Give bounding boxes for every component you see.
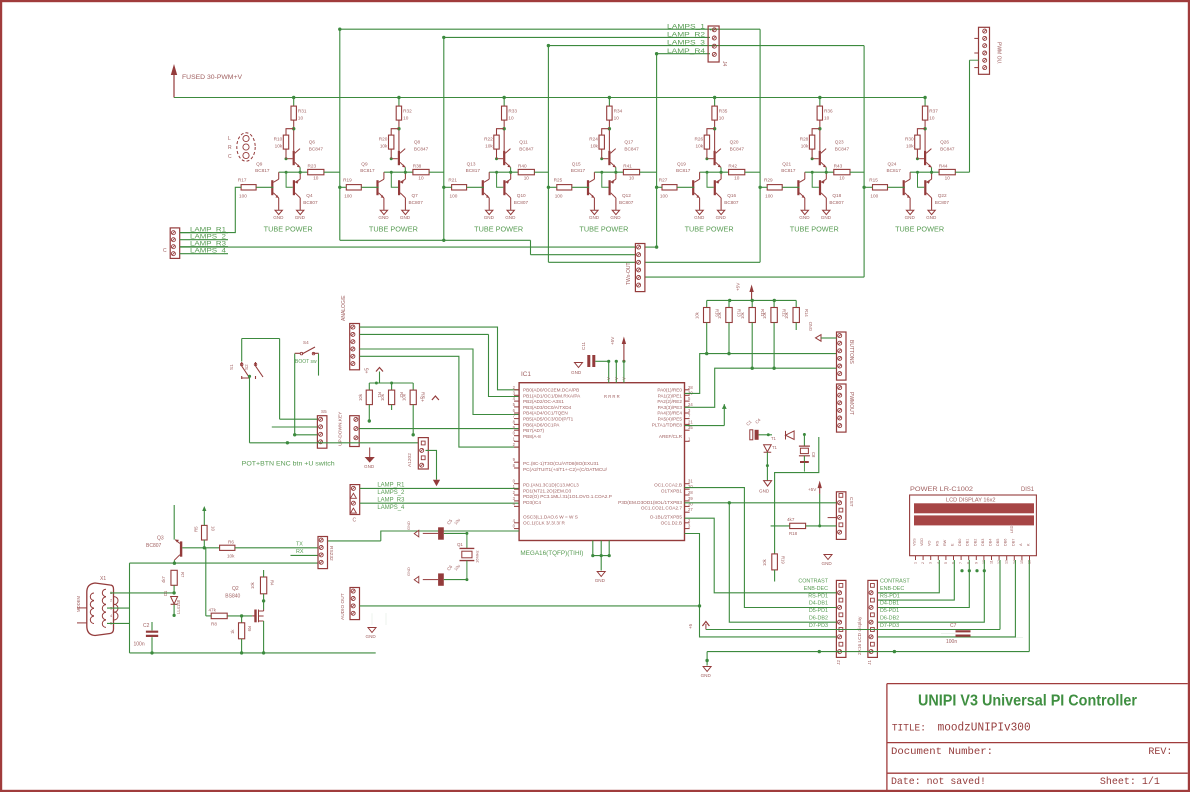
wire lcd col 5: [999, 560, 1001, 630]
svg-text:47k: 47k: [209, 608, 217, 613]
svg-text:3: 3: [929, 562, 933, 564]
svg-text:+5: +5: [420, 396, 426, 402]
wire C6 out: [444, 579, 467, 581]
svg-text:J4: J4: [721, 61, 727, 67]
pin stub right: [685, 440, 690, 442]
capacitor C6 10u: [438, 573, 444, 585]
svg-text:100: 100: [239, 194, 247, 199]
svg-text:24: 24: [688, 402, 693, 407]
crystal Q2 with cap: [799, 446, 810, 456]
svg-text:BC847: BC847: [519, 147, 534, 152]
resistor R23 10: [308, 169, 324, 174]
pin stub left: [514, 394, 519, 396]
svg-text:5: 5: [944, 562, 948, 564]
wire base resistor to base: [572, 186, 589, 188]
svg-text:TUBE POWER: TUBE POWER: [579, 227, 628, 234]
d-sub connector X1: [87, 583, 114, 636]
svg-text:Q7: Q7: [412, 193, 419, 198]
resistor R43 10: [834, 169, 850, 174]
wire emitter down: [720, 167, 722, 172]
svg-text:LCD DISPLAY 16x2: LCD DISPLAY 16x2: [946, 498, 996, 504]
wire rail to R36: [819, 98, 821, 107]
svg-text:+5: +5: [365, 368, 371, 374]
capacitor C1: [750, 430, 753, 440]
svg-text:BC817: BC817: [466, 168, 481, 173]
svg-text:R15: R15: [869, 178, 878, 183]
transistor Q10 BC807 (PNP): [503, 180, 505, 195]
resistor R41 10: [623, 169, 639, 174]
wire lcd col 1: [877, 560, 939, 593]
svg-text:10k: 10k: [762, 311, 767, 319]
wire base lead: [497, 158, 504, 160]
svg-text:R8: R8: [211, 622, 217, 627]
connector PWMOUT: [837, 384, 847, 432]
wire pnp base: [391, 172, 398, 187]
wire R8 left: [206, 615, 211, 617]
connector AUDIO OUT: [350, 588, 360, 620]
svg-text:ENB-DEC: ENB-DEC: [880, 586, 904, 592]
svg-text:T1: T1: [771, 436, 777, 441]
wire stub LAMPS_2: [180, 239, 229, 241]
zener D4: [764, 445, 772, 452]
svg-text:PA2(2)/RE2: PA2(2)/RE2: [657, 399, 682, 404]
svg-text:28: 28: [688, 490, 693, 495]
wire output to vertical: [640, 171, 657, 173]
svg-text:R43: R43: [834, 163, 843, 168]
resistor R8 47k: [211, 613, 227, 619]
svg-text:LAMPS_1: LAMPS_1: [667, 24, 706, 30]
svg-text:10: 10: [298, 116, 304, 121]
svg-text:UP-DOWN.KEY: UP-DOWN.KEY: [338, 411, 344, 446]
wire pnp base: [286, 172, 293, 187]
wire down to keys: [279, 339, 281, 420]
svg-text:VSS: VSS: [913, 538, 917, 546]
wire key row4 long: [250, 442, 419, 444]
wire base resistor to base: [467, 186, 484, 188]
svg-text:Q15: Q15: [572, 161, 581, 166]
resistor R16 10k: [706, 300, 708, 307]
svg-text:Q21: Q21: [782, 161, 791, 166]
svg-text:DB2: DB2: [973, 539, 977, 546]
svg-text:LAMP_R1: LAMP_R1: [190, 227, 227, 233]
ground stage left: [275, 210, 282, 214]
svg-text:Q4: Q4: [306, 193, 313, 198]
ground stage left: [801, 210, 808, 214]
svg-text:R4: R4: [270, 580, 275, 586]
svg-text:RS232: RS232: [328, 546, 334, 561]
svg-text:100: 100: [870, 194, 878, 199]
pin stub left: [514, 488, 519, 490]
svg-text:BC847: BC847: [730, 147, 745, 152]
vcc caret pot network: [376, 368, 383, 372]
svg-text:11: 11: [990, 560, 994, 564]
vertical resistor R19 10k near J2: [772, 554, 778, 570]
svg-text:31: 31: [688, 479, 693, 484]
wire output node row: [594, 171, 623, 173]
wire +5 to r18: [819, 494, 821, 526]
svg-text:O-1BL/2TXPB5: O-1BL/2TXPB5: [650, 515, 683, 520]
svg-text:R6: R6: [228, 540, 234, 545]
svg-text:PA4(3)/RE4: PA4(3)/RE4: [657, 411, 682, 416]
svg-text:10: 10: [508, 116, 514, 121]
resistor R22 10k: [494, 135, 499, 149]
ground near J2 top: [824, 555, 832, 560]
svg-text:J2: J2: [836, 660, 842, 665]
svg-text:R29: R29: [764, 178, 773, 183]
ground stage left: [696, 210, 703, 214]
pin stub left: [514, 522, 519, 524]
svg-text:Sheet: 1/1: Sheet: 1/1: [1100, 776, 1160, 788]
svg-text:LAMPS_4: LAMPS_4: [190, 248, 227, 254]
wire lcd col 4: [877, 560, 984, 622]
transistor Q3 BC807: [180, 541, 182, 556]
svg-text:DB5: DB5: [996, 539, 1000, 546]
svg-text:GND: GND: [701, 673, 712, 678]
wire emitter down: [299, 167, 301, 172]
svg-text:D4-DB1: D4-DB1: [880, 601, 899, 607]
resistor R34 10: [607, 106, 612, 120]
svg-text:10k: 10k: [801, 144, 809, 149]
pin stub right: [685, 505, 690, 507]
transistor Q9 BC817: [271, 180, 273, 195]
svg-text:FUSED 30-PWM+V: FUSED 30-PWM+V: [182, 74, 243, 81]
pin stub right: [685, 394, 690, 396]
wire S3 left down: [294, 354, 296, 435]
wire stage5 output to TRIAC pin3: [645, 261, 760, 263]
pin stub right: [685, 400, 690, 402]
pin stub right: [685, 406, 690, 408]
svg-text:BS840: BS840: [225, 594, 240, 600]
resistor R19 100: [346, 185, 361, 190]
wire RX row: [291, 554, 319, 556]
wire row A: [685, 354, 837, 394]
svg-text:GND: GND: [571, 370, 582, 375]
wire buttons gnd: [821, 337, 837, 339]
resistor R17 100: [241, 185, 256, 190]
wire stage4 output vertical: [656, 54, 658, 247]
wire base resistor to base: [888, 186, 905, 188]
svg-text:CST: CST: [848, 497, 854, 507]
wire lcd col 7: [1028, 560, 1030, 652]
switch S3 boot: [295, 347, 319, 354]
node rail junction stage 7: [923, 96, 926, 99]
connector LAMPS middle: [350, 485, 360, 515]
svg-text:R9: R9: [247, 626, 252, 632]
pin stub right: [685, 412, 690, 414]
svg-text:IC1: IC1: [521, 371, 531, 378]
wire emitter down: [825, 167, 827, 172]
connector J2 lcd control: [836, 580, 846, 657]
wire emitter down: [615, 167, 617, 172]
svg-text:BC817: BC817: [781, 168, 796, 173]
svg-text:PD1(NT21.2O(2EM.D3: PD1(NT21.2O(2EM.D3: [523, 488, 572, 493]
wire output to vertical: [850, 171, 864, 173]
wire stage3 base feed: [444, 186, 452, 188]
wire pnp base: [602, 172, 609, 187]
svg-text:ENB-DEC: ENB-DEC: [804, 586, 828, 592]
wire stub LAMP_R1: [180, 232, 229, 234]
svg-text:GND: GND: [822, 561, 833, 566]
resistor R11 10k: [751, 300, 753, 307]
wire pullup2 to row A: [728, 330, 730, 354]
wire base resistor to base: [782, 186, 799, 188]
node rail junction stage 6: [818, 96, 821, 99]
svg-text:R19: R19: [343, 178, 352, 183]
resistor R44 10: [939, 169, 955, 174]
svg-text:Q11: Q11: [519, 140, 528, 145]
svg-text:AUDIO OUT: AUDIO OUT: [340, 593, 346, 620]
svg-text:BC807: BC807: [724, 200, 739, 205]
transistor Q13 BC817: [482, 180, 484, 195]
capacitor C2 100n: [146, 632, 158, 636]
wire stub LAMP_R3: [180, 246, 229, 248]
svg-text:D6-DB2: D6-DB2: [809, 616, 828, 622]
wire output node row: [489, 171, 518, 173]
svg-text:R R R R: R R R R: [604, 394, 620, 399]
transistor Q17 BC847: [608, 151, 610, 165]
wire X1 pin5: [107, 622, 130, 624]
svg-text:10k: 10k: [275, 144, 283, 149]
svg-text:R18: R18: [789, 531, 798, 536]
svg-text:POWER LR-C1002: POWER LR-C1002: [910, 486, 974, 493]
svg-text:GND: GND: [799, 215, 810, 220]
svg-text:8: 8: [967, 562, 971, 564]
wire R5 bottom: [203, 540, 205, 548]
svg-text:R34: R34: [614, 109, 623, 114]
svg-text:GND: GND: [589, 215, 600, 220]
svg-text:1: 1: [914, 562, 918, 564]
resistor R24 10k: [599, 135, 604, 149]
connector UP-DOWN KEY A: [317, 416, 327, 449]
svg-text:S2: S2: [244, 364, 249, 370]
node stage4 base tap: [547, 186, 550, 189]
ground stage right: [297, 210, 304, 214]
svg-text:R36: R36: [824, 109, 833, 114]
resistor R36 10: [817, 106, 822, 120]
svg-text:PA0(1)/RE0: PA0(1)/RE0: [657, 388, 682, 393]
svg-text:PB2(AD2/OC-A3S1: PB2(AD2/OC-A3S1: [523, 399, 564, 404]
wire R2 bottom: [391, 405, 393, 410]
wire emitter down: [510, 167, 512, 172]
resistor R35 10: [712, 106, 717, 120]
wire output node row: [279, 171, 308, 173]
svg-text:PB6(AD6/OC1PA: PB6(AD6/OC1PA: [523, 422, 560, 427]
wire lamp mid row1: [360, 487, 519, 489]
title block line 3: [887, 772, 1188, 774]
svg-text:OC1.CCA2.B: OC1.CCA2.B: [654, 483, 682, 488]
wire pullup1 to row A: [706, 330, 708, 354]
connector A1202: [418, 438, 428, 469]
svg-text:GND: GND: [406, 567, 411, 576]
wire Q2 gate row: [227, 615, 252, 617]
wire output node row: [384, 171, 413, 173]
svg-text:MODEM: MODEM: [76, 595, 81, 612]
lcd bar row 2: [914, 515, 1034, 525]
wire key row2: [272, 426, 318, 428]
svg-text:R32: R32: [403, 109, 412, 114]
wire crystal to R19: [775, 437, 819, 554]
svg-text:RS-PD1: RS-PD1: [880, 593, 900, 599]
svg-text:R20: R20: [379, 137, 388, 142]
svg-text:P3D(EM.D3OD1(8OL/1TXPB3: P3D(EM.D3OD1(8OL/1TXPB3: [618, 500, 682, 505]
ic bottom pin group: [592, 541, 594, 556]
wire analog row0: [360, 327, 520, 390]
svg-text:L: L: [228, 136, 231, 142]
power +5V j bus: [702, 622, 709, 627]
svg-text:C: C: [353, 518, 357, 524]
svg-text:R44: R44: [939, 163, 948, 168]
net arrow stub: [723, 404, 725, 426]
svg-text:D7-PD3: D7-PD3: [809, 623, 828, 629]
ground stage right: [612, 210, 619, 214]
svg-text:MEGA16(TQFP)(TIHI): MEGA16(TQFP)(TIHI): [520, 551, 583, 557]
resistor R12 10k: [773, 300, 775, 307]
pin stub left: [514, 528, 519, 530]
transistor Q18 BC807 (PNP): [819, 180, 821, 195]
ground buttons: [816, 335, 822, 342]
wire emitter down: [404, 167, 406, 172]
wire c1 out: [759, 434, 772, 436]
ground below IC: [600, 556, 602, 571]
wire S3 right down: [318, 354, 320, 376]
svg-text:10k: 10k: [717, 311, 722, 319]
ground C11: [575, 363, 583, 368]
node stage3 base tap: [442, 186, 445, 189]
svg-text:100: 100: [765, 194, 773, 199]
svg-text:Q19: Q19: [677, 161, 686, 166]
pin stub left: [514, 467, 519, 469]
svg-text:POT+BTN ENC btn +U switch: POT+BTN ENC btn +U switch: [242, 460, 335, 467]
svg-text:PB4(AD4/OC1/TQEN: PB4(AD4/OC1/TQEN: [523, 411, 568, 416]
svg-text:GND: GND: [484, 215, 495, 220]
svg-text:TWx-OUT: TWx-OUT: [626, 263, 632, 286]
wire analog row1: [360, 333, 489, 335]
pin stub left: [514, 483, 519, 485]
pin stub right: [685, 500, 690, 502]
svg-text:V: V: [614, 377, 619, 380]
svg-text:4k7: 4k7: [161, 576, 166, 583]
wire row B: [685, 368, 837, 407]
svg-text:TUBE POWER: TUBE POWER: [790, 227, 839, 234]
wire resistor to collector: [398, 120, 400, 151]
svg-text:10: 10: [313, 176, 319, 181]
node rail junction stage 5: [713, 96, 716, 99]
svg-text:GND: GND: [378, 215, 389, 220]
svg-text:C11: C11: [581, 341, 586, 350]
power +5V icsp: [819, 485, 821, 494]
pin stub right: [685, 488, 690, 490]
wire stage7 output to PWM pin5: [970, 59, 979, 61]
svg-text:D6-DB2: D6-DB2: [880, 616, 899, 622]
svg-text:OC.1(CLK 3/.3/.3/ R: OC.1(CLK 3/.3/.3/ R: [523, 520, 566, 525]
svg-text:OC1.D2.B: OC1.D2.B: [661, 520, 682, 525]
svg-text:DB1: DB1: [966, 539, 970, 546]
node rail junction stage 2: [397, 96, 400, 99]
svg-text:Q20: Q20: [730, 140, 739, 145]
svg-text:Q6: Q6: [309, 140, 316, 145]
wire R4 top: [263, 570, 265, 577]
wire r18 left: [771, 525, 790, 527]
svg-text:Q24: Q24: [888, 161, 897, 166]
svg-text:Q9: Q9: [361, 161, 368, 166]
wire analog row3: [360, 356, 520, 447]
svg-text:R14: R14: [804, 309, 809, 317]
svg-text:D4-DB1: D4-DB1: [809, 601, 828, 607]
power arrow FUSED 30-PWM+: [173, 70, 175, 98]
wire S2 output down: [249, 376, 251, 443]
svg-text:GND: GND: [366, 634, 377, 639]
svg-text:C7: C7: [950, 623, 957, 629]
wire top +30V rail: [174, 97, 925, 99]
node stage6 base tap: [758, 186, 761, 189]
ic bottom pins join: [593, 555, 609, 557]
pin stub left: [514, 500, 519, 502]
svg-text:PA1(2)/PE1: PA1(2)/PE1: [658, 393, 683, 398]
ground stage right: [928, 210, 935, 214]
svg-text:Q2: Q2: [232, 586, 239, 592]
pin stub right: [685, 423, 690, 425]
svg-text:10: 10: [719, 116, 725, 121]
svg-text:10k: 10k: [380, 144, 388, 149]
wire emitter row corner down: [129, 563, 131, 653]
wire resistor to collector: [608, 120, 610, 151]
wire stage2 output vertical: [443, 37, 445, 240]
transistor Q19 BC817: [692, 180, 694, 195]
svg-text:+5V: +5V: [736, 282, 741, 291]
svg-text:100n: 100n: [946, 639, 957, 645]
wire row 425: [685, 425, 725, 427]
ground stage right: [823, 210, 830, 214]
pin stub right: [685, 528, 690, 530]
wire base lead: [602, 158, 609, 160]
wire output to vertical: [534, 171, 548, 173]
connector TRIAC OUT (TWx-OUT): [635, 244, 645, 292]
svg-text:LAMPS_4: LAMPS_4: [377, 505, 405, 511]
pin stub right: [685, 483, 690, 485]
wire row 630: [706, 629, 1000, 631]
pin stub right: [685, 522, 690, 524]
wire lamp row 2: [444, 36, 710, 38]
wire output node row: [910, 171, 939, 173]
svg-text:CONTRAST: CONTRAST: [798, 579, 828, 585]
wire base lead: [812, 158, 819, 160]
wire rail to R35: [714, 98, 716, 107]
svg-text:GND: GND: [364, 464, 375, 469]
wire j2 bottom bus gnd: [707, 651, 1029, 653]
svg-text:D5-PD1: D5-PD1: [809, 608, 828, 614]
svg-text:A: A: [1019, 543, 1023, 546]
resistor R38 10: [413, 169, 429, 174]
ground stage left: [380, 210, 387, 214]
wire diode net: [803, 433, 805, 446]
svg-text:10k: 10k: [906, 144, 914, 149]
svg-text:BC847: BC847: [940, 147, 955, 152]
wire base resistor to base: [361, 186, 378, 188]
svg-text:10: 10: [211, 526, 216, 531]
svg-text:TUBE POWER: TUBE POWER: [264, 227, 313, 234]
connector SV1 lamps top: [708, 26, 719, 62]
capacitor C7 100n: [956, 631, 971, 635]
wire Q2 source: [263, 621, 265, 653]
resistor R5 10: [202, 525, 208, 540]
wire X1 pin1: [110, 592, 174, 594]
connector BUTTONS: [837, 332, 847, 380]
ground stage left: [486, 210, 493, 214]
resistor R37 10: [922, 106, 927, 120]
svg-text:CONTRAST: CONTRAST: [880, 579, 910, 585]
svg-text:RW: RW: [943, 539, 947, 546]
wire c7 right: [971, 637, 1024, 639]
